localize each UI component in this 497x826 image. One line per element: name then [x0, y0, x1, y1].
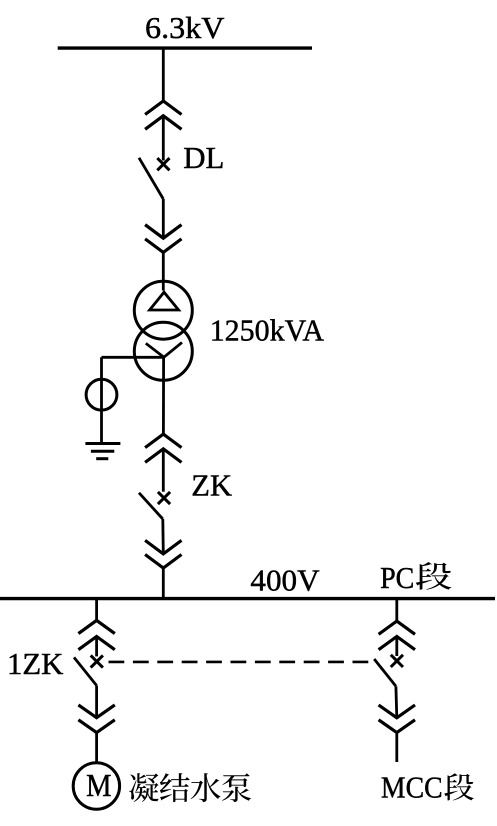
svg-text:400V: 400V — [250, 563, 320, 598]
wire drawout to ZK — [162, 449, 165, 492]
svg-text:1250kVA: 1250kVA — [210, 312, 325, 347]
drawout contact pair below MCC breaker — [379, 705, 415, 733]
transformer T1 primary winding circle — [134, 281, 192, 339]
MCC breaker fixed contact x — [391, 655, 403, 667]
drawout contact pair below ZK — [145, 540, 181, 568]
wire bus to upper drawout contact — [162, 48, 165, 101]
svg-text:M: M — [86, 768, 111, 803]
drawout contact pair above 1ZK — [78, 620, 114, 649]
drawout contact pair above ZK — [145, 434, 181, 462]
svg-text:PC: PC — [380, 560, 414, 595]
svg-text:ZK: ZK — [191, 468, 232, 503]
busbar 400V PC section — [0, 597, 495, 600]
svg-text:DL: DL — [183, 140, 224, 175]
wire DL to lower drawout contact — [162, 199, 165, 238]
transformer T1 secondary winding circle — [134, 322, 192, 380]
transformer delta winding symbol — [150, 292, 179, 310]
wire drawout to 400V bus — [162, 568, 165, 599]
breaker DL blade — [139, 158, 163, 199]
label 凝结水泵 condensate pump — [129, 773, 251, 802]
wire drawout to MCC breaker — [395, 637, 398, 657]
svg-text:1ZK: 1ZK — [7, 646, 64, 681]
wire drawout to 1ZK — [95, 637, 98, 657]
svg-text:6.3kV: 6.3kV — [145, 10, 225, 45]
wire drawout to MCC section — [395, 733, 398, 762]
drawout contact pair below 1ZK — [78, 705, 114, 733]
label PC段 — [380, 560, 451, 595]
busbar 6.3kV — [58, 46, 312, 49]
feeder wire bus to 1ZK drawout — [95, 599, 98, 621]
breaker DL fixed contact x — [157, 158, 169, 170]
wire drawout to DL — [162, 116, 165, 161]
drawout contact pair above DL — [145, 101, 181, 129]
wire 1ZK to lower drawout — [95, 686, 98, 718]
feeder wire bus to MCC drawout — [395, 599, 398, 622]
drawout contact pair above MCC breaker — [379, 621, 415, 650]
wire transformer secondary (wye stem) down to drawout — [162, 357, 165, 434]
wire MCC breaker to lower drawout — [394, 686, 398, 718]
drawout contact pair below DL — [145, 225, 181, 253]
ground symbol — [85, 444, 120, 459]
svg-text:MCC: MCC — [381, 770, 443, 805]
breaker 1ZK blade — [74, 657, 97, 685]
wire drawout to transformer — [162, 252, 165, 290]
neutral wire vertical to ground — [100, 357, 103, 443]
MCC breaker blade — [374, 659, 396, 686]
neutral wire horizontal — [102, 356, 164, 359]
wire drawout to motor — [95, 733, 98, 763]
transformer wye winding symbol — [146, 342, 182, 357]
breaker 1ZK fixed contact x — [91, 655, 103, 667]
wire ZK to lower drawout — [161, 519, 164, 554]
breaker ZK blade — [139, 493, 163, 519]
interlock dashed tie line — [109, 661, 374, 664]
label MCC段 — [381, 770, 474, 805]
neutral grounding device circle — [86, 379, 117, 410]
motor M circle — [73, 763, 119, 809]
breaker ZK fixed contact x — [158, 492, 170, 504]
